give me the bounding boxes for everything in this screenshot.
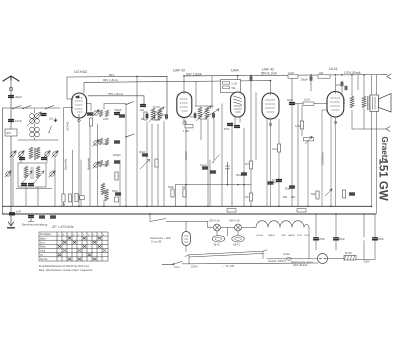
resistor 1M UM4 — [249, 161, 252, 169]
wire mains bottom run — [267, 258, 375, 261]
wire switch line A — [104, 104, 126, 109]
resistor V2 bias — [185, 125, 193, 128]
svg-text:5k 2W: 5k 2W — [345, 252, 353, 255]
IF transformer 2 coil b — [205, 107, 209, 119]
switch osc band — [125, 102, 134, 106]
svg-text:18V 0,1A: 18V 0,1A — [229, 219, 240, 223]
capacitor 30 coil — [41, 114, 46, 116]
trimmer RF pad 1 — [44, 151, 50, 157]
resistor UM4 box b — [223, 86, 230, 89]
wire mid drops — [64, 124, 98, 206]
capacitor 100pF UM4 — [250, 77, 252, 81]
svg-text:50k: 50k — [61, 202, 66, 206]
tube V2 grids — [180, 99, 188, 111]
svg-text:25nF: 25nF — [319, 237, 325, 241]
svg-text:0,1M: 0,1M — [272, 147, 278, 151]
speaker cone — [379, 94, 392, 113]
svg-text:50pF: 50pF — [285, 187, 291, 191]
resistor V4 load — [277, 144, 280, 152]
wire V2 cathode drop — [184, 121, 186, 206]
arrow antenna coil tuning — [27, 112, 41, 126]
ground — [8, 215, 14, 226]
svg-text:→ 70–135: → 70–135 — [222, 264, 235, 268]
capacitor 1nF center — [141, 105, 146, 107]
resistor bus series b — [297, 209, 306, 212]
resistor mains dropper hatch — [344, 256, 355, 261]
capacitor 50nF det — [242, 173, 247, 175]
antenna — [3, 76, 19, 81]
svg-text:UM4: UM4 — [281, 235, 286, 237]
node switch bottom — [173, 263, 175, 265]
svg-text:Kurz: Kurz — [40, 241, 46, 244]
svg-text:0,4H: 0,4H — [342, 98, 346, 104]
core osc transformer — [31, 167, 33, 179]
svg-text:UB 41: UB 41 — [233, 244, 240, 247]
resistor small box — [80, 196, 85, 200]
tube V4 leads — [270, 81, 272, 123]
wire V1 left pin — [64, 104, 92, 161]
capacitor V1 grid — [88, 113, 93, 115]
wire left junction line — [18, 139, 58, 141]
wire band switch line — [3, 107, 61, 109]
svg-text:h: h — [93, 234, 94, 236]
table band switch grid — [39, 232, 108, 261]
speaker coil bars — [373, 97, 376, 110]
svg-text:d: d — [73, 234, 74, 236]
svg-text:UCH42: UCH42 — [256, 235, 264, 237]
svg-text:40k: 40k — [319, 71, 324, 75]
potentiometer tone — [325, 189, 332, 196]
svg-text:555: 555 — [103, 164, 108, 167]
dial scale bar — [185, 250, 267, 264]
svg-text:Drucktaste: Drucktaste — [40, 233, 52, 236]
resistor UM4 box a — [223, 82, 230, 85]
svg-text:0,1/4A: 0,1/4A — [283, 253, 290, 256]
coil oscillator tank 2 — [105, 189, 109, 201]
svg-text:30pF: 30pF — [15, 95, 22, 99]
IF transformer 1 tuning arrow — [149, 107, 164, 122]
capacitor 20pF coupling — [290, 103, 295, 105]
wire ext speaker line — [352, 128, 386, 130]
wire coil link — [34, 109, 36, 140]
svg-text:170V 50mA: 170V 50mA — [344, 71, 362, 75]
heater filament humps — [253, 221, 309, 228]
node tube V2 base pin — [183, 122, 186, 125]
svg-text:c: c — [68, 234, 69, 236]
arrow osc coil tune a — [22, 171, 32, 183]
node tube V1 base pin — [78, 119, 81, 122]
coil antenna upper pair — [30, 114, 35, 119]
svg-text:100pF: 100pF — [113, 153, 121, 157]
box coil unit — [18, 163, 46, 187]
tube V1 anode — [78, 95, 80, 118]
capacitor 50nF mains c — [373, 238, 378, 240]
svg-text:UL41: UL41 — [297, 235, 303, 237]
svg-text:0,2M: 0,2M — [288, 71, 294, 75]
svg-text:90V 1,8mA: 90V 1,8mA — [186, 73, 203, 77]
tube socket b — [232, 236, 244, 242]
svg-text:50k: 50k — [311, 192, 316, 196]
svg-text:25k: 25k — [291, 196, 296, 199]
node AVC junctions — [185, 184, 187, 186]
capacitor coil unit b — [42, 158, 47, 160]
IF transformer 2 tuning arrow — [196, 106, 211, 121]
svg-text:50nF: 50nF — [339, 237, 345, 241]
resistor 20k center — [144, 112, 147, 120]
trimmer osc 2 — [49, 171, 55, 177]
node tube V5 base pin — [334, 121, 337, 124]
resistor 40k supply — [318, 75, 330, 78]
coil RF secondary — [36, 147, 40, 159]
svg-text:UB 41: UB 41 — [213, 244, 220, 247]
coil cluster B coil 2 — [105, 138, 108, 145]
svg-text:70: 70 — [190, 116, 193, 119]
ground arrow small — [54, 118, 57, 122]
table cross marks — [58, 237, 106, 260]
capacitor 0,1uF det a — [203, 167, 208, 169]
tube V1 UCH42 envelope — [72, 93, 87, 118]
resistor bias 2 — [68, 194, 71, 202]
capacitor cluster B — [115, 141, 120, 143]
svg-text:UAF42: UAF42 — [268, 234, 276, 237]
svg-text:50nF: 50nF — [378, 237, 384, 241]
svg-text:Bereichumschaltung: Bereichumschaltung — [22, 223, 48, 227]
svg-text:220V–Betrieb: 220V–Betrieb — [293, 264, 308, 267]
svg-text:Mittel: Mittel — [40, 237, 46, 240]
capacitor 6,25uF electrolytic — [268, 182, 273, 184]
wire V1 top to supply — [67, 77, 84, 99]
svg-text:UM4: UM4 — [231, 69, 239, 73]
wire AVC line — [176, 185, 252, 207]
wire screen line — [88, 96, 144, 104]
capacitor IFT2 a — [194, 114, 196, 118]
wire antenna lead — [10, 79, 12, 213]
node mains switch — [149, 213, 151, 215]
resistor V1 grid leak — [89, 118, 92, 126]
capacitor 25nF mains a — [314, 238, 319, 240]
resistor 0,3M lower — [155, 159, 158, 167]
svg-text:k: k — [103, 234, 104, 236]
tube V5 leads — [335, 77, 337, 122]
wire coupling drops — [292, 75, 298, 207]
capacitor 50nF UM4 a — [228, 124, 233, 126]
node junction dots — [78, 74, 376, 215]
IF transformer 1 coil a — [151, 108, 155, 120]
IF transformer 2 coil a — [198, 107, 202, 119]
wire left frame — [2, 108, 4, 214]
capacitor 50nF bus — [51, 216, 56, 218]
wire heater chain — [208, 222, 254, 237]
capacitor 0,1uF V4 — [277, 180, 282, 182]
svg-text:82V: 82V — [109, 73, 114, 77]
wire 100nF drop — [310, 75, 312, 91]
resistor 1M low — [249, 193, 252, 201]
svg-text:UAF42: UAF42 — [288, 234, 296, 237]
capacitor IFT2 b — [213, 114, 215, 118]
wire detector drops — [210, 76, 244, 207]
wire volume drop — [307, 141, 309, 206]
svg-text:18V 0,1A: 18V 0,1A — [209, 219, 220, 223]
svg-text:g: g — [88, 234, 89, 236]
tube V1 grids — [75, 98, 83, 112]
capacitor 1nF to gnd — [10, 213, 15, 215]
trimmer antenna pad 1 — [10, 151, 16, 157]
capacitor 2nF top — [341, 82, 343, 86]
coil cluster A coil 2 — [105, 110, 108, 117]
capacitor 50nF UM4 b — [235, 126, 240, 128]
tube V2 anode lead — [183, 76, 185, 122]
capacitor 1nF bus — [29, 216, 34, 218]
tube V4 grids — [266, 100, 276, 112]
coil cluster B coil 1 — [99, 138, 102, 145]
wire top anode supply line — [67, 75, 387, 113]
lamp dial 2 — [235, 224, 242, 231]
svg-text:220V: 220V — [364, 260, 370, 264]
speaker voice coil box — [370, 95, 379, 112]
tube ballast UR dial — [182, 232, 191, 246]
potentiometer volume arrow — [305, 137, 312, 145]
wire heater bus lower — [3, 213, 376, 215]
plug pins — [319, 258, 326, 260]
svg-text:78V 1,8mA: 78V 1,8mA — [108, 92, 123, 96]
coil output primary — [362, 96, 366, 108]
svg-text:100: 100 — [49, 118, 54, 121]
tube V3 UM4 envelope — [231, 92, 245, 117]
svg-text:151 GW: 151 GW — [377, 159, 389, 201]
wire center drops — [120, 77, 164, 207]
wire chassis bus upper — [3, 205, 372, 207]
wire second supply line — [84, 81, 270, 83]
connector ext speaker fork — [386, 127, 390, 132]
svg-text:12 cm² Bl: 12 cm² Bl — [151, 240, 162, 243]
capacitor blocking — [9, 120, 14, 122]
svg-text:Lang: Lang — [40, 251, 46, 253]
capacitor electrolytic AVC — [225, 162, 229, 185]
svg-text:10nF: 10nF — [15, 119, 22, 123]
svg-text:1,8M: 1,8M — [183, 129, 189, 133]
wire grid drop — [301, 105, 303, 136]
resistor mains dropper — [344, 256, 356, 261]
switch mains bottom — [174, 261, 183, 264]
resistor bias 3 — [75, 194, 78, 202]
resistor AVC box — [115, 197, 119, 202]
wire speaker drops — [372, 75, 377, 214]
wire ballast leads — [185, 222, 187, 252]
switch cluster B — [125, 134, 134, 138]
svg-text:0,65/50mA: 0,65/50mA — [321, 152, 325, 165]
svg-text:30pF: 30pF — [139, 150, 146, 154]
wire filament end drop — [308, 228, 310, 259]
wire osc coil drop — [103, 200, 105, 206]
wire UM4 right drop 2 — [251, 93, 256, 207]
svg-text:50nF: 50nF — [236, 173, 242, 177]
coil osc secondary — [36, 166, 40, 178]
svg-text:2nF: 2nF — [336, 83, 341, 87]
svg-text:85V 8,1mA: 85V 8,1mA — [261, 72, 278, 76]
arrow osc coil tune b — [34, 171, 44, 183]
svg-text:2000: 2000 — [103, 143, 109, 146]
wire drop trim1 — [12, 156, 14, 206]
trimmer cluster A — [93, 110, 99, 116]
capacitor coil unit a — [20, 158, 25, 160]
wire V5 screen drop — [341, 81, 343, 94]
svg-text:0,1M: 0,1M — [304, 98, 310, 102]
svg-text:1M: 1M — [245, 196, 248, 199]
switch wave band c — [45, 106, 54, 110]
switch K tap — [49, 126, 52, 132]
capacitor IFT1 a — [146, 114, 148, 118]
svg-text:Bauj.: Wechselstrom–Geräte ent: Bauj.: Wechselstrom–Geräte entspr. vorge… — [39, 269, 93, 272]
capacitor 30pF center — [143, 154, 148, 156]
resistor 1M row — [183, 189, 186, 197]
resistor 500k row — [171, 189, 174, 197]
tube V5 UL41 envelope — [327, 92, 344, 118]
coil osc primary — [24, 166, 28, 178]
capacitor padder b — [29, 184, 34, 186]
svg-text:UL41: UL41 — [329, 67, 338, 71]
svg-text:4nF: 4nF — [6, 131, 11, 135]
wire UM4 right drop — [250, 77, 252, 169]
switch AF tap — [213, 155, 220, 163]
capacitor 50nF mains b — [334, 238, 339, 240]
resistor 0,3M center — [155, 112, 158, 120]
coil field choke — [350, 96, 354, 108]
potentiometer volume — [304, 138, 314, 141]
capacitor 50uF cathode — [350, 193, 355, 195]
svg-text:Platte: Platte — [40, 246, 47, 249]
resistor AVC mid — [115, 172, 118, 180]
svg-text:50nF: 50nF — [112, 189, 118, 193]
svg-text:0,3M: 0,3M — [159, 114, 165, 117]
svg-text:50nF: 50nF — [224, 128, 230, 131]
wire mains right verticals — [316, 214, 375, 260]
svg-text:1000: 1000 — [103, 118, 109, 121]
trimmer osc 1 — [5, 171, 11, 177]
tube V4 UBF envelope — [262, 93, 279, 119]
resistor 50k out — [316, 191, 319, 199]
svg-text:750pF: 750pF — [114, 108, 122, 112]
svg-text:0,1A: 0,1A — [174, 265, 180, 269]
svg-text:20k: 20k — [140, 109, 145, 112]
svg-text:0,1µF: 0,1µF — [271, 180, 278, 184]
wire coupling line — [295, 103, 328, 105]
trimmer RF pad 2 — [52, 151, 58, 157]
resistor 0,2M supply — [288, 75, 298, 78]
capacitor 0,1uF det b — [211, 171, 216, 173]
box UM4 network — [221, 80, 241, 93]
resistor bias 1 — [62, 194, 65, 202]
capacitor 50nF lower left — [116, 193, 121, 195]
svg-text:Sperrkr.: Sperrkr. — [40, 258, 48, 261]
switch mains primary — [150, 214, 208, 222]
coil antenna lower pair — [30, 127, 35, 132]
coil RF primary — [29, 147, 33, 159]
capacitor padder a — [22, 184, 27, 186]
svg-text:Mittelwelle: Mittelwelle — [87, 157, 91, 170]
svg-text:Empfindlichkeitswert für 50mW: Empfindlichkeitswert für 50mW bei 30% mo… — [39, 265, 90, 268]
tube V3 leads — [235, 76, 240, 125]
svg-text:1M: 1M — [182, 185, 186, 189]
wire V5 cathode drop — [322, 110, 336, 206]
switch wave band a — [12, 106, 21, 110]
capacitor 2nF anode — [345, 86, 347, 90]
wire choke column — [352, 75, 364, 129]
tube socket a — [212, 236, 224, 242]
capacitor 100pF cluster C — [115, 161, 120, 163]
capacitor cluster A2 — [120, 115, 125, 117]
resistor 180 cathode — [342, 190, 345, 198]
plug mains — [318, 254, 328, 264]
capacitor 750pF — [115, 113, 120, 115]
fuse 0,1/4A — [286, 257, 291, 260]
resistor bus series a — [227, 209, 236, 212]
core RF transformer — [35, 148, 36, 160]
trimmer cluster C — [93, 162, 99, 168]
wire V1 cathode drop — [78, 118, 80, 206]
coil cluster C coil 2 — [105, 160, 108, 167]
switch wave band b — [22, 106, 31, 110]
wire IFT2 links — [195, 106, 214, 119]
wire mains bottom line — [162, 263, 318, 264]
lamp dial 1 — [214, 224, 221, 231]
svg-text:ZF = 473 kHz: ZF = 473 kHz — [51, 225, 74, 229]
capacitor 50pF af — [290, 186, 295, 188]
potentiometer IF gain arrow — [140, 160, 150, 170]
svg-text:ausschl. 110/127: ausschl. 110/127 — [268, 260, 287, 263]
svg-text:500k: 500k — [168, 185, 174, 189]
wire drop coilblock — [21, 156, 55, 206]
svg-text:90V 1,8mA: 90V 1,8mA — [103, 78, 118, 82]
capacitor 4uF bus — [40, 216, 45, 218]
wire IFT1 links — [147, 107, 167, 120]
table row labels — [40, 233, 104, 261]
tube V2 UAF42 envelope — [177, 92, 192, 118]
potentiometer regen — [205, 109, 219, 118]
resistor 0,1M coupling — [303, 102, 314, 105]
wire IFT2 drops — [196, 81, 214, 206]
svg-text:20pF: 20pF — [287, 98, 293, 102]
resistor 0,3M grid — [300, 121, 303, 129]
svg-text:1M: 1M — [245, 162, 249, 166]
IF transformer 1 coil b — [158, 108, 162, 120]
svg-text:TA: TA — [40, 254, 43, 257]
coil oscillator tank — [101, 183, 105, 195]
coil cluster C coil 1 — [99, 160, 102, 167]
capacitor IFT1 b — [166, 115, 168, 119]
coil cluster A coil 1 — [99, 110, 102, 117]
capacitor 100nF supply — [310, 77, 312, 81]
node tube V4 base pin — [269, 123, 272, 126]
svg-text:50k: 50k — [283, 196, 288, 199]
tube V3 target screen — [234, 96, 242, 112]
transformer output core — [368, 96, 370, 110]
svg-text:0,1µF: 0,1µF — [200, 163, 207, 167]
svg-text:Kurzwelle: Kurzwelle — [64, 158, 68, 170]
capacitor 30pF antenna — [9, 96, 14, 98]
trimmer antenna pad 2 — [18, 151, 24, 157]
trimmer cluster B — [93, 140, 99, 146]
svg-text:UCH42: UCH42 — [66, 121, 70, 131]
wire coil unit bottom — [16, 188, 52, 190]
wire V4 drops — [267, 119, 279, 206]
svg-text:1nF: 1nF — [16, 210, 21, 214]
svg-text:220V~: 220V~ — [191, 264, 199, 268]
svg-text:UY41: UY41 — [304, 235, 310, 237]
chassis 1nF stem — [28, 219, 33, 222]
svg-text:UAF 42: UAF 42 — [173, 69, 185, 73]
tube V5 grids — [331, 98, 341, 110]
connector top right fork — [387, 74, 391, 79]
